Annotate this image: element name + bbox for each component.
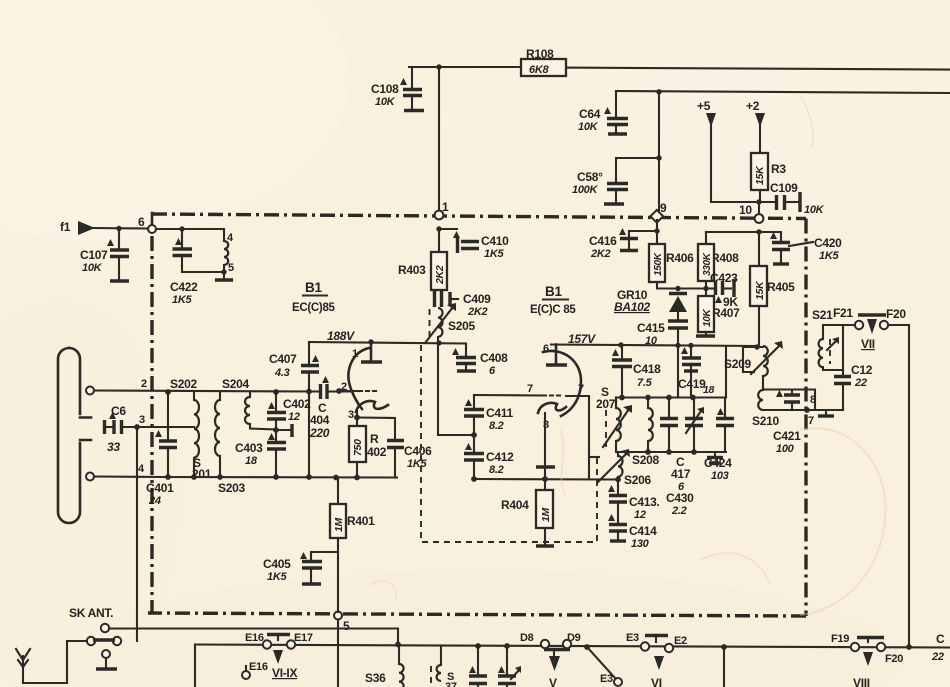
svg-text:1K5: 1K5 (484, 248, 504, 260)
svg-text:VIII: VIII (853, 676, 870, 687)
svg-text:2K2: 2K2 (590, 248, 610, 260)
svg-text:10K: 10K (702, 308, 713, 327)
capacitor C413 (608, 480, 660, 524)
svg-text:BA102: BA102 (614, 300, 650, 314)
svg-text:B1: B1 (545, 284, 562, 299)
wire bottom distribution row (195, 645, 950, 648)
node 10 (739, 203, 763, 223)
wire node9 drop (658, 92, 660, 212)
svg-text:15K: 15K (754, 165, 766, 185)
inductor S208 (632, 398, 659, 468)
wire screening-box dash-dot bus top (152, 214, 806, 219)
svg-text:C107: C107 (80, 248, 108, 262)
svg-text:F19: F19 (831, 633, 849, 645)
capacitor C64 (578, 91, 628, 134)
wire top supply rail (409, 67, 950, 70)
wire grid row (94, 391, 352, 392)
svg-text:R401: R401 (347, 514, 375, 528)
wire E-row left leg (194, 645, 196, 687)
wire node10 drop (758, 202, 760, 214)
inductor S37 (431, 647, 457, 687)
tube B1a grid pin 2 (336, 381, 376, 394)
svg-text:1M: 1M (540, 507, 552, 522)
svg-text:C411: C411 (486, 406, 513, 420)
svg-text:C410: C410 (481, 234, 509, 248)
svg-text:VII: VII (861, 337, 875, 351)
capacitor C409 (435, 291, 492, 318)
link bar F21-F20 (858, 315, 886, 334)
switch F19/F20 (831, 633, 912, 687)
capacitor C12 (834, 325, 873, 410)
svg-text:S208: S208 (632, 453, 659, 467)
svg-text:12: 12 (288, 411, 300, 423)
wire SK ANT to E-row (109, 629, 398, 645)
svg-text:1M: 1M (333, 517, 345, 532)
svg-text:3: 3 (139, 414, 145, 426)
svg-text:402: 402 (367, 445, 387, 459)
tube B1b cathode pin 8 (536, 403, 566, 479)
terminal F20 (880, 307, 907, 329)
svg-text:R: R (370, 432, 379, 446)
tube B1b plate pin 6 (543, 343, 567, 365)
svg-text:R3: R3 (771, 162, 786, 176)
capacitor C403 (235, 433, 286, 477)
svg-text:+5: +5 (697, 99, 711, 113)
svg-text:D8: D8 (520, 632, 534, 644)
wire pin7 to S206 (588, 396, 590, 480)
wire oscillator bottom row (474, 478, 618, 481)
antenna symbol (16, 649, 30, 683)
wire screening-box dash-dot left side (150, 236, 153, 613)
svg-text:E16: E16 (249, 661, 268, 673)
svg-text:R405: R405 (767, 280, 795, 294)
svg-text:33: 33 (107, 440, 120, 454)
svg-text:8: 8 (810, 394, 816, 406)
label B1 EC(C)85 (292, 280, 336, 314)
svg-text:C415: C415 (637, 321, 665, 335)
capacitor C416 (589, 228, 660, 260)
svg-text:S209: S209 (724, 357, 751, 371)
resistor R408 (698, 229, 762, 296)
svg-text:E(C)C 85: E(C)C 85 (530, 304, 576, 316)
svg-text:1K5: 1K5 (819, 250, 839, 262)
inductor S21 (819, 325, 855, 370)
node f1 input arrow (60, 220, 148, 235)
capacitor C418 (612, 345, 661, 397)
inductor S210 (752, 376, 815, 428)
resistor R108 (521, 47, 566, 76)
svg-text:C422: C422 (170, 280, 198, 294)
svg-text:B1: B1 (305, 280, 322, 295)
svg-text:S203: S203 (218, 481, 245, 495)
svg-text:10: 10 (739, 203, 752, 217)
label S21 F21 (812, 306, 853, 322)
svg-text:417: 417 (671, 467, 691, 481)
svg-text:C419: C419 (678, 377, 706, 391)
svg-text:f1: f1 (60, 220, 71, 234)
inductor S207 (596, 385, 632, 452)
pencil marks (800, 428, 885, 615)
net +5 (697, 99, 758, 202)
wire node1 drop (438, 67, 440, 211)
svg-text:C420: C420 (814, 236, 842, 250)
resistor R406 (649, 220, 706, 291)
svg-text:C405: C405 (263, 557, 291, 571)
wire S205 to C411/C412 junction (438, 343, 474, 435)
terminal F21 (855, 321, 863, 329)
svg-text:R407: R407 (712, 306, 740, 320)
capacitor C408 (452, 344, 508, 378)
resistor R3 (751, 153, 786, 205)
svg-text:100: 100 (776, 443, 795, 455)
svg-text:R403: R403 (398, 263, 426, 277)
capacitor C109 (759, 181, 825, 216)
capacitor C407 (269, 342, 319, 391)
svg-text:E16: E16 (245, 632, 264, 644)
inductor S36 (365, 647, 404, 687)
svg-text:100K: 100K (572, 184, 598, 196)
svg-text:4.3: 4.3 (274, 367, 290, 379)
svg-text:130: 130 (631, 538, 650, 550)
capacitor C410 (439, 229, 509, 260)
svg-text:150K: 150K (653, 252, 664, 276)
svg-text:8.2: 8.2 (489, 464, 504, 476)
svg-text:S210: S210 (752, 414, 779, 428)
svg-text:6: 6 (543, 343, 549, 355)
wire antenna to switch (23, 641, 87, 683)
wire 157V rail (551, 345, 756, 347)
svg-text:SK ANT.: SK ANT. (69, 606, 113, 620)
svg-text:C413.: C413. (629, 495, 660, 509)
svg-text:C: C (936, 632, 945, 646)
node 1 (435, 200, 449, 219)
svg-text:C416: C416 (589, 234, 617, 248)
svg-text:C403: C403 (235, 441, 263, 455)
diode GR10 BA102 (614, 288, 687, 319)
capacitor band cap1 (469, 643, 487, 687)
svg-text:C430: C430 (666, 491, 694, 505)
svg-text:1K5: 1K5 (172, 294, 192, 306)
svg-text:C402: C402 (283, 397, 311, 411)
svg-text:C409: C409 (463, 292, 491, 306)
svg-text:10: 10 (645, 335, 658, 347)
node 5 (334, 612, 350, 634)
svg-text:S206: S206 (624, 473, 651, 487)
capacitor C417 fixed (660, 398, 691, 494)
svg-text:C421: C421 (773, 429, 801, 443)
svg-text:VI-IX: VI-IX (272, 666, 297, 680)
junction node1 top (436, 64, 441, 69)
capacitor C420 (759, 232, 842, 264)
svg-text:7: 7 (527, 383, 533, 395)
inductor S202/S201 (170, 377, 212, 481)
svg-text:2: 2 (141, 378, 147, 390)
capacitor C414 (608, 514, 657, 550)
svg-text:188V: 188V (327, 329, 355, 343)
junction C64 rail (656, 89, 661, 94)
svg-text:C58°: C58° (577, 170, 603, 184)
capacitor C415 (637, 321, 688, 398)
svg-text:207: 207 (596, 397, 616, 411)
svg-text:C412: C412 (486, 450, 514, 464)
svg-text:2K2: 2K2 (434, 265, 446, 285)
wire tuner ground rail (162, 476, 397, 479)
wire node6 to coil (156, 228, 224, 230)
svg-text:E3: E3 (626, 632, 639, 644)
terminal SK ANT top (101, 624, 109, 632)
svg-text:7.5: 7.5 (637, 377, 653, 389)
capacitor C6 (105, 404, 140, 454)
tube B1a cathode pin 3 (348, 401, 395, 439)
net +2 (746, 99, 765, 154)
capacitor C421 (773, 390, 801, 456)
svg-text:24: 24 (148, 495, 161, 507)
svg-text:7: 7 (808, 415, 814, 427)
svg-text:18: 18 (703, 384, 715, 396)
svg-text:VI: VI (651, 676, 662, 687)
capacitor C422 (170, 226, 224, 306)
resistor R401 (311, 478, 375, 613)
label B1 E(C)C85 right (530, 284, 576, 316)
wire tap to S202 (137, 426, 194, 428)
svg-text:7: 7 (578, 383, 584, 395)
svg-text:C406: C406 (404, 444, 432, 458)
wire C407 column down (308, 391, 310, 477)
capacitor C107 (80, 226, 129, 281)
svg-text:5: 5 (343, 619, 350, 633)
svg-text:6K8: 6K8 (529, 64, 549, 76)
tube B1b envelope (543, 351, 581, 416)
resistor R405 (750, 232, 795, 346)
wire screening-box dash-dot bottom (148, 613, 806, 616)
svg-text:S204: S204 (222, 377, 249, 391)
label C edge (931, 632, 945, 663)
switch D8/D9 (520, 632, 581, 687)
svg-text:S202: S202 (170, 377, 197, 391)
svg-text:S36: S36 (365, 671, 386, 685)
svg-text:5: 5 (228, 262, 234, 274)
svg-text:18: 18 (245, 455, 258, 467)
capacitor C402 (267, 389, 311, 441)
capacitor right trim (716, 398, 734, 453)
tube B1a triode pin 1 plate (352, 342, 382, 362)
terminal SK ANT ground (96, 650, 117, 669)
svg-text:C401: C401 (146, 481, 174, 495)
inductor S204 (222, 377, 276, 430)
wire 188V rail (309, 342, 466, 344)
svg-text:F20: F20 (886, 307, 906, 321)
svg-text:R408: R408 (711, 251, 739, 265)
svg-text:C407: C407 (269, 352, 297, 366)
resistor R407 (696, 296, 740, 336)
capacitor band trimmer1 (498, 643, 521, 687)
wire node5 drop (337, 620, 339, 687)
capacitor C424 (704, 452, 732, 482)
capacitor C404 series (309, 376, 330, 440)
junction E2 drop (721, 644, 727, 687)
wire C6 node to SK ANT (136, 427, 138, 641)
ground node 7 (808, 410, 834, 427)
switch E16/E17 (242, 632, 313, 680)
svg-text:10K: 10K (804, 204, 825, 216)
svg-text:C109: C109 (770, 181, 798, 195)
wire cluster right riser (725, 346, 727, 397)
svg-text:C64: C64 (579, 107, 601, 121)
wire F20 drop (888, 325, 909, 647)
capacitor C108 (371, 67, 424, 111)
wire screening-box dash-dot right side (804, 219, 807, 617)
resistor R404 (501, 479, 554, 546)
switch SK ANT contacts (87, 637, 121, 645)
svg-text:C414: C414 (629, 524, 657, 538)
svg-text:R406: R406 (666, 251, 694, 265)
capacitor C406 (387, 441, 432, 478)
svg-text:2K2: 2K2 (467, 306, 487, 318)
resistor R402 (349, 426, 387, 478)
svg-text:10K: 10K (578, 121, 599, 133)
antenna dipole (58, 348, 162, 523)
svg-text:3: 3 (348, 409, 354, 421)
svg-text:E2: E2 (674, 635, 687, 647)
svg-text:EC(C)85: EC(C)85 (292, 302, 336, 314)
junction below node1 (436, 226, 441, 231)
switch E3/E2 (584, 632, 687, 687)
svg-text:C418: C418 (633, 362, 661, 376)
svg-text:8.2: 8.2 (489, 420, 504, 432)
svg-text:6: 6 (138, 215, 145, 229)
svg-text:22: 22 (854, 377, 867, 389)
tube B1a envelope (348, 348, 369, 409)
svg-text:10K: 10K (375, 96, 396, 108)
svg-text:R404: R404 (501, 498, 529, 512)
wire second supply rail (616, 91, 950, 93)
svg-text:S205: S205 (448, 319, 475, 333)
resistor R403 (398, 229, 447, 290)
svg-text:F20: F20 (885, 653, 903, 665)
svg-text:V: V (549, 676, 557, 687)
svg-text:S21: S21 (812, 308, 833, 322)
capacitor C405 (263, 552, 322, 584)
svg-text:12: 12 (634, 509, 646, 521)
inductor S209 (724, 341, 783, 376)
svg-text:750: 750 (352, 439, 364, 456)
inductor S206 (589, 449, 651, 487)
svg-text:E17: E17 (294, 632, 313, 644)
svg-text:+2: +2 (746, 99, 760, 113)
svg-text:103: 103 (711, 470, 729, 482)
svg-text:2.2: 2.2 (671, 505, 687, 517)
inductor S205 (425, 303, 475, 343)
wire S210 bottom row (763, 409, 843, 411)
tube B1b grid pin 7 (474, 383, 589, 396)
svg-text:37: 37 (445, 681, 457, 687)
wire tuned-circuit bottom row (616, 451, 726, 453)
wire tuned-circuit top row (616, 396, 726, 398)
inductor pins 4-5 (215, 229, 234, 280)
dashed oscillator box (421, 345, 597, 542)
capacitor C423 (706, 271, 738, 309)
svg-text:220: 220 (309, 426, 330, 440)
capacitor C58 (572, 155, 662, 204)
svg-text:10K: 10K (82, 262, 103, 274)
svg-text:F21: F21 (833, 306, 853, 320)
svg-text:404: 404 (310, 413, 330, 427)
capacitor C411 (464, 396, 513, 453)
svg-text:C408: C408 (480, 351, 508, 365)
svg-text:1K5: 1K5 (407, 458, 427, 470)
svg-text:22: 22 (931, 651, 944, 663)
capacitor trimmer mid (685, 398, 704, 453)
svg-text:15K: 15K (754, 280, 766, 300)
capacitor C412 (464, 443, 514, 482)
capacitor C419 (678, 346, 715, 398)
node 6 (138, 213, 156, 233)
capacitor C401 (146, 389, 177, 507)
inductor S203 (215, 392, 245, 496)
label C430 (666, 491, 694, 517)
svg-text:1K5: 1K5 (267, 571, 287, 583)
node 9 (650, 201, 667, 223)
svg-text:C108: C108 (371, 82, 399, 96)
svg-text:C12: C12 (851, 363, 873, 377)
